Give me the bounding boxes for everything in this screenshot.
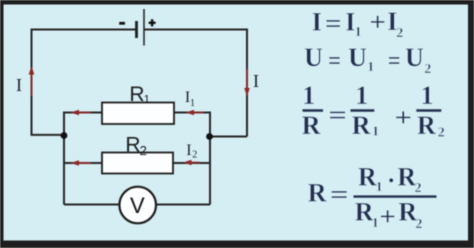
wire R1 left lead bbox=[64, 112, 102, 114]
svg-text:2: 2 bbox=[424, 62, 431, 77]
current arrow I (left wire, up) bbox=[29, 66, 35, 96]
svg-text:1: 1 bbox=[355, 25, 362, 40]
wire top-left (battery negative to left corner, down left side) bbox=[32, 30, 137, 135]
svg-text:2: 2 bbox=[396, 26, 403, 41]
svg-text:=: = bbox=[388, 46, 401, 75]
battery B1 positive plate bbox=[143, 9, 145, 46]
formula 1: I = I1 + I2 bbox=[312, 7, 404, 41]
svg-text:1: 1 bbox=[302, 81, 315, 110]
wire bottom left (to voltmeter) bbox=[64, 204, 119, 206]
wire R1 right lead bbox=[174, 112, 210, 114]
svg-text:2: 2 bbox=[415, 181, 422, 196]
wire bottom right (from voltmeter) bbox=[157, 204, 210, 206]
current arrow I (right wire, down) bbox=[244, 69, 250, 97]
node A (left junction) bbox=[61, 132, 68, 139]
wire R2 left lead bbox=[64, 162, 102, 164]
svg-text:R: R bbox=[308, 179, 327, 208]
svg-text:I: I bbox=[16, 75, 22, 95]
svg-text:U: U bbox=[304, 43, 323, 72]
wire node-right to outer right bbox=[209, 136, 247, 138]
svg-text:1: 1 bbox=[372, 216, 379, 231]
svg-text:+: + bbox=[369, 8, 386, 37]
svg-text:2: 2 bbox=[415, 217, 422, 232]
svg-text:V: V bbox=[130, 193, 145, 218]
svg-text:1: 1 bbox=[144, 93, 150, 105]
wire left branch vertical bbox=[63, 112, 65, 205]
svg-text:U: U bbox=[405, 43, 424, 72]
svg-text:I: I bbox=[253, 71, 259, 91]
svg-text:1: 1 bbox=[372, 125, 379, 140]
formula 2: U = U1 = U2 bbox=[304, 43, 431, 77]
svg-text:R: R bbox=[129, 83, 144, 106]
svg-text:2: 2 bbox=[192, 149, 197, 160]
svg-text:I: I bbox=[312, 8, 322, 37]
resistor R2 bbox=[102, 153, 173, 174]
svg-text:1: 1 bbox=[421, 81, 434, 110]
battery B1 negative plate bbox=[135, 21, 138, 38]
svg-text:I: I bbox=[186, 142, 191, 159]
svg-text:R: R bbox=[302, 111, 321, 140]
svg-text:·: · bbox=[387, 166, 396, 195]
svg-text:R: R bbox=[125, 134, 140, 157]
svg-text:R: R bbox=[417, 111, 436, 140]
wire left-node feed bbox=[31, 134, 65, 136]
formula 4: R = R1*R2 / (R1+R2) bbox=[308, 162, 437, 232]
wire top-right (battery positive to right corner, down right side) bbox=[144, 30, 247, 137]
current arrow I2 right (toward R2) bbox=[183, 160, 200, 166]
node B (right junction) bbox=[206, 133, 213, 140]
svg-text:+: + bbox=[379, 202, 396, 231]
svg-text:2: 2 bbox=[140, 143, 147, 158]
formula 3: 1/R = 1/R1 + 1/R2 bbox=[302, 81, 445, 140]
current arrow I2 left (out of R2 lead) bbox=[71, 160, 92, 166]
wire right branch vertical bbox=[209, 112, 211, 205]
svg-text:=: = bbox=[330, 180, 349, 209]
svg-text:=: = bbox=[328, 100, 347, 129]
current arrow I1 right (toward R1) bbox=[186, 110, 204, 116]
svg-text:1: 1 bbox=[190, 98, 195, 109]
svg-text:+: + bbox=[394, 103, 412, 132]
svg-text:U: U bbox=[348, 43, 367, 72]
wire R2 right lead bbox=[173, 162, 210, 164]
current arrow I1 left (into R1 lead) bbox=[71, 110, 92, 116]
svg-text:=: = bbox=[325, 9, 342, 38]
svg-text:1: 1 bbox=[355, 81, 368, 110]
svg-text:2: 2 bbox=[438, 125, 445, 140]
svg-text:1: 1 bbox=[376, 180, 383, 195]
battery minus sign bbox=[119, 22, 125, 25]
svg-text:1: 1 bbox=[367, 60, 374, 75]
voltmeter V bbox=[119, 187, 156, 224]
battery plus sign bbox=[149, 19, 156, 26]
svg-text:R: R bbox=[358, 162, 377, 191]
svg-text:R: R bbox=[352, 111, 371, 140]
resistor R1 bbox=[102, 103, 174, 125]
svg-text:=: = bbox=[328, 46, 341, 75]
